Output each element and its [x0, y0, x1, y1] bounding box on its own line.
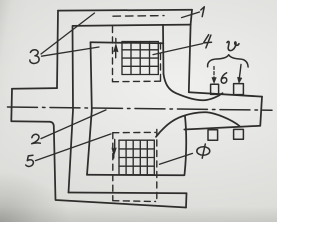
symbol Phi (flux) — [197, 144, 210, 158]
leader 3a — [41, 13, 95, 54]
leader from Phi — [160, 153, 193, 164]
centerline (dash-dot axis) — [8, 107, 273, 110]
yoke outer left edge (below pipe) + outer bottom edge — [50, 122, 186, 208]
pipe left stub: top wall — [12, 87, 57, 90]
yoke second outline bottom edge — [69, 192, 187, 195]
label 3 — [30, 50, 39, 64]
coil bottom: winding grid — [119, 140, 154, 175]
top bar right end + casing right edge — [189, 10, 192, 92]
leader 3b — [42, 47, 100, 56]
curly brace over electrodes — [208, 55, 249, 67]
label 5 — [26, 155, 34, 166]
leader 4 — [153, 44, 203, 55]
leader 1 — [182, 12, 200, 18]
leader 2 — [41, 110, 106, 139]
top bar dashed centerline — [113, 15, 164, 18]
yoke outer right end cap — [185, 193, 188, 207]
label 6 — [221, 73, 227, 83]
symbol U (voltage) — [227, 41, 239, 50]
electrode top-right — [234, 84, 244, 95]
top bar (magnet plate 1) top edge — [58, 9, 192, 12]
dashed arrow onto left electrode — [212, 67, 216, 84]
flux arrow down (bottom coil) — [112, 140, 116, 159]
label 2 — [32, 134, 41, 143]
flux arrow up (top coil) — [114, 39, 118, 58]
window right edge (below pipe) — [185, 116, 187, 175]
label 4 — [204, 35, 212, 48]
electrode top-left — [211, 84, 219, 94]
label 1 — [201, 7, 205, 17]
arrow onto right electrode — [237, 65, 241, 84]
yoke outer left edge (above pipe) — [57, 11, 58, 88]
electrode bottom-right — [234, 129, 244, 139]
pipe bottom line (right section) — [184, 126, 260, 130]
pipe right end — [260, 97, 262, 126]
top nozzle curve (pole to channel, dips below top line) — [164, 74, 223, 100]
coil top: winding grid — [122, 42, 158, 75]
coil bottom dashed boundary — [113, 130, 157, 202]
pipe top line (right section) — [189, 92, 262, 96]
inner window top edge — [91, 42, 164, 43]
top bar bottom edge / yoke top face — [73, 25, 191, 26]
pipe left stub: closed left end — [10, 89, 13, 122]
bottom nozzle curve (bulging arc) — [156, 112, 240, 137]
inner window left edge — [87, 42, 92, 175]
inner window bottom edge — [87, 174, 184, 176]
coil top dashed boundary — [113, 27, 162, 82]
pole edge vertical (right of top coil) — [162, 25, 165, 74]
pipe left stub: bottom wall — [11, 120, 50, 123]
yoke second outline left edge — [69, 26, 74, 193]
electrode bottom-left — [208, 130, 218, 140]
leader 5 — [36, 134, 112, 161]
